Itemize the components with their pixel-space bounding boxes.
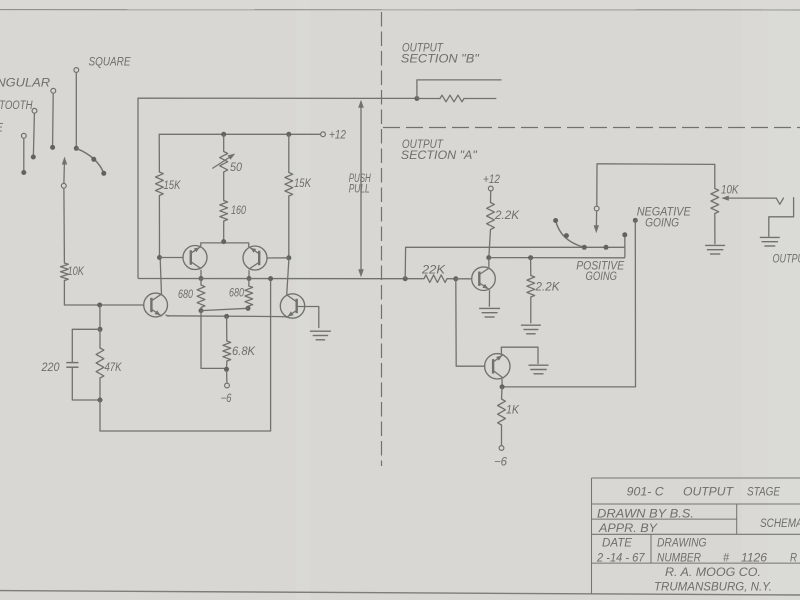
svg-text:GOING: GOING bbox=[645, 217, 679, 229]
svg-text:15K: 15K bbox=[294, 178, 312, 190]
wire emitter rail bbox=[167, 315, 284, 318]
svg-text:#: # bbox=[723, 553, 730, 565]
svg-text:TRUMANSBURG, N.Y.: TRUMANSBURG, N.Y. bbox=[654, 582, 772, 594]
wire 22K to A1 base bbox=[456, 278, 472, 280]
dashed divider horizontal (section split) bbox=[383, 127, 800, 129]
rotary switch arm (arc from square contact) bbox=[76, 148, 104, 173]
wire 680 center link bbox=[201, 308, 248, 310]
wire T4 collector up bbox=[287, 259, 289, 295]
svg-text:NUMBER: NUMBER bbox=[657, 553, 701, 565]
svg-text:DRAWN BY B.S.: DRAWN BY B.S. bbox=[597, 509, 694, 521]
resistor 6.8K bbox=[226, 316, 228, 341]
wire A1 collector rail bbox=[489, 257, 625, 259]
wire to -6 terminal (push-pull) bbox=[226, 371, 228, 383]
input stub TRIANGULAR bbox=[51, 88, 56, 93]
svg-text:−6: −6 bbox=[494, 457, 508, 469]
wire to capacitor branch bbox=[72, 329, 100, 361]
svg-text:DATE: DATE bbox=[602, 538, 632, 550]
node base junction left bbox=[97, 303, 102, 308]
ground 10K bbox=[705, 244, 725, 246]
ground A2 collector bbox=[529, 364, 549, 366]
resistor 15K right bbox=[285, 173, 293, 197]
svg-text:DRAWING: DRAWING bbox=[657, 538, 707, 550]
terminal -6 section A bbox=[499, 446, 504, 451]
resistor 22K bbox=[423, 278, 425, 280]
wire top line to 10K pot bbox=[714, 164, 716, 188]
svg-text:STAGE: STAGE bbox=[747, 487, 780, 499]
wire 10K to base node bbox=[64, 281, 143, 306]
wire T3 emitter to rail bbox=[166, 315, 170, 317]
resistor 2.2K emitter-side bbox=[530, 258, 532, 276]
transistor Q5 (section A common emitter) bbox=[472, 267, 496, 291]
node section-A branch corner bbox=[403, 276, 408, 281]
svg-text:680: 680 bbox=[178, 289, 193, 301]
node T2 base / T4 collector bbox=[286, 255, 291, 260]
svg-text:6.8K: 6.8K bbox=[232, 346, 256, 358]
wire wiper to 10K bbox=[63, 188, 66, 263]
wire 160 to collector split bbox=[223, 221, 225, 243]
terminal switch common bbox=[594, 206, 599, 211]
wire A1 collector up bbox=[488, 259, 490, 267]
resistor 10K (input) bbox=[61, 263, 69, 281]
input stub SAWTOOTH bbox=[32, 108, 37, 113]
svg-text:+12: +12 bbox=[483, 174, 501, 186]
node rail/50-pot bbox=[221, 132, 226, 137]
input stub SINE bbox=[21, 133, 26, 138]
sheet bottom border line bbox=[0, 591, 800, 595]
wire 15K left to base node bbox=[158, 196, 160, 258]
svg-text:901- C: 901- C bbox=[627, 487, 665, 499]
sheet top border line bbox=[0, 9, 800, 11]
svg-text:PULL: PULL bbox=[349, 184, 370, 196]
svg-text:−6: −6 bbox=[221, 393, 232, 405]
svg-text:TRIANGULAR: TRIANGULAR bbox=[0, 78, 50, 90]
wire +12 to 15K left bbox=[158, 134, 160, 172]
svg-text:OUTPUT: OUTPUT bbox=[683, 487, 734, 499]
node 6.8K bottom bbox=[224, 367, 229, 372]
svg-text:22K: 22K bbox=[421, 265, 447, 277]
wire +12 to 50 pot bbox=[223, 134, 225, 151]
resistor 47K bbox=[99, 329, 101, 348]
node negative going terminal bbox=[633, 218, 638, 223]
title block frame bbox=[592, 477, 800, 479]
wire T4 emitter to rail bbox=[282, 316, 286, 318]
jack tip contact bbox=[776, 198, 783, 204]
wire T1 emitter to rail bbox=[200, 270, 202, 277]
wire output-B feed (left edge + top edge) bbox=[138, 98, 417, 278]
wire A2 emitter bbox=[501, 379, 503, 386]
node switch throw contact bbox=[604, 245, 609, 250]
node 680 right bottom bbox=[246, 306, 251, 311]
svg-text:GOING: GOING bbox=[586, 271, 618, 283]
svg-text:R. A. MOOG CO.: R. A. MOOG CO. bbox=[665, 567, 761, 579]
wire section B upper stub bbox=[417, 80, 501, 99]
transistor Q4 (diff pair right) bbox=[280, 294, 304, 318]
transistor Q3 (diff pair left) bbox=[144, 293, 168, 317]
wire T1 base bbox=[160, 257, 184, 259]
node rail/right-15K bbox=[286, 132, 291, 137]
wire T2 base bbox=[267, 257, 289, 259]
svg-text:2.2K: 2.2K bbox=[534, 282, 560, 294]
node collector split bbox=[221, 239, 226, 244]
title block divider schematic cell bbox=[736, 504, 738, 534]
ground jack sleeve bbox=[760, 236, 780, 238]
dashed divider vertical (section split) bbox=[381, 12, 383, 466]
switch arm arc bbox=[556, 221, 585, 248]
resistor 680 left bbox=[200, 279, 202, 286]
svg-text:SQUARE: SQUARE bbox=[89, 57, 131, 69]
node feedback tap bbox=[268, 276, 273, 281]
node 680 left bottom bbox=[199, 308, 204, 313]
switch wiper arrow and terminal bbox=[63, 163, 66, 184]
wire T4 base to ground bbox=[296, 307, 318, 328]
node T2 emitter on rail bbox=[247, 276, 252, 281]
wire switch common from top line bbox=[597, 163, 715, 166]
node 47K bottom bbox=[98, 398, 103, 403]
svg-text:1126: 1126 bbox=[741, 553, 768, 565]
svg-text:47K: 47K bbox=[105, 362, 123, 374]
svg-text:220: 220 bbox=[41, 362, 61, 374]
wire collector split to T1/T2 bbox=[201, 243, 249, 247]
svg-text:10K: 10K bbox=[721, 185, 740, 197]
switch common arrow bbox=[595, 212, 597, 227]
svg-text:2.2K: 2.2K bbox=[494, 210, 520, 222]
svg-text:SAWTOOTH: SAWTOOTH bbox=[0, 100, 33, 112]
resistor 160 bbox=[220, 201, 228, 222]
wire positive-going riser bbox=[624, 236, 626, 258]
resistor section B (unlabeled) bbox=[417, 98, 440, 100]
wire A2 collector to ground bbox=[501, 347, 538, 363]
node square bottom bbox=[74, 146, 79, 151]
terminal +12 section A bbox=[488, 186, 493, 191]
terminal +12 bbox=[321, 132, 326, 137]
wire negative going down to A2 emitter bbox=[502, 220, 635, 387]
wire +12 to 2.2K bbox=[490, 191, 492, 203]
node sawtooth bottom bbox=[31, 155, 36, 160]
node A1 collector bbox=[486, 255, 491, 260]
wire 2.2K to collector rail bbox=[489, 230, 491, 257]
node T1 base / T3 collector bbox=[157, 255, 162, 260]
node section-B junction bbox=[414, 96, 419, 101]
wire 50 to 160 bbox=[223, 172, 225, 201]
node sine bottom bbox=[21, 170, 26, 175]
node 2.2K-2 tap bbox=[528, 255, 533, 260]
potentiometer 50 bbox=[220, 152, 228, 172]
input stub SQUARE bbox=[74, 68, 79, 73]
wire 10K bottom to ground bbox=[714, 214, 716, 245]
resistor 15K left bbox=[156, 172, 164, 196]
wire T2 emitter to rail bbox=[248, 270, 250, 277]
wire +12 rail bbox=[159, 133, 320, 135]
svg-text:SECTION "B": SECTION "B" bbox=[401, 54, 480, 66]
ground T4 base bbox=[310, 330, 331, 332]
node A1 base junction bbox=[453, 276, 458, 281]
wire capacitor bottom bbox=[72, 367, 100, 400]
node A2 emitter bbox=[500, 384, 505, 389]
resistor 1K bbox=[501, 387, 504, 399]
node positive going terminal bbox=[622, 232, 627, 237]
feedback wire bottom loop bbox=[100, 281, 271, 432]
wire 15K right to base node bbox=[288, 196, 290, 258]
capacitor 220 bbox=[66, 362, 78, 364]
push-pull span arrow bbox=[360, 104, 362, 272]
svg-text:50: 50 bbox=[230, 162, 243, 174]
potentiometer 10K output bbox=[711, 189, 719, 214]
svg-text:10K: 10K bbox=[68, 266, 86, 278]
svg-text:SINE: SINE bbox=[0, 123, 3, 135]
transistor Q2 (push-pull right) bbox=[243, 246, 267, 270]
transistor Q1 (push-pull left) bbox=[183, 246, 207, 270]
wire A1 emitter down bbox=[488, 290, 490, 307]
wire push-pull output rail bbox=[138, 278, 423, 280]
wire branch up to positive-going line bbox=[405, 247, 625, 278]
wire T3 collector up bbox=[160, 259, 161, 295]
transistor Q6 (section A emitter follower) bbox=[485, 354, 510, 379]
node 6.8K tap bbox=[224, 314, 229, 319]
svg-text:+12: +12 bbox=[329, 130, 347, 142]
node triangular bottom bbox=[50, 145, 55, 150]
svg-text:APPR. BY: APPR. BY bbox=[598, 523, 659, 535]
title block divider date/drawing bbox=[650, 534, 652, 563]
resistor 680 right bbox=[248, 279, 250, 287]
wire A1 base to A2 base bbox=[456, 279, 485, 366]
wire base node down to 47K bbox=[99, 305, 101, 329]
svg-text:SECTION "A": SECTION "A" bbox=[401, 150, 478, 162]
svg-text:R: R bbox=[790, 553, 797, 565]
node T1 emitter on rail bbox=[199, 276, 204, 281]
node 47K top bbox=[98, 327, 103, 332]
terminal -6 (push-pull) bbox=[225, 383, 230, 388]
svg-text:OUTPUT: OUTPUT bbox=[773, 254, 800, 266]
pot wiper arrow from jack tip bbox=[728, 197, 777, 199]
svg-text:SCHEMATIC: SCHEMATIC bbox=[760, 518, 800, 530]
svg-text:2 -14 - 67: 2 -14 - 67 bbox=[596, 553, 645, 565]
svg-text:680: 680 bbox=[229, 288, 244, 300]
svg-text:15K: 15K bbox=[164, 180, 182, 192]
ground A1 emitter bbox=[479, 307, 500, 309]
resistor 2.2K collector load bbox=[487, 203, 495, 230]
jack sleeve wire to ground bbox=[769, 198, 794, 237]
svg-text:1K: 1K bbox=[506, 405, 520, 417]
svg-text:160: 160 bbox=[231, 205, 246, 217]
wire 680 tap down to -6 node bbox=[201, 311, 227, 369]
wire +12 to 15K right bbox=[288, 134, 290, 172]
ground 2.2K lower bbox=[521, 324, 541, 326]
